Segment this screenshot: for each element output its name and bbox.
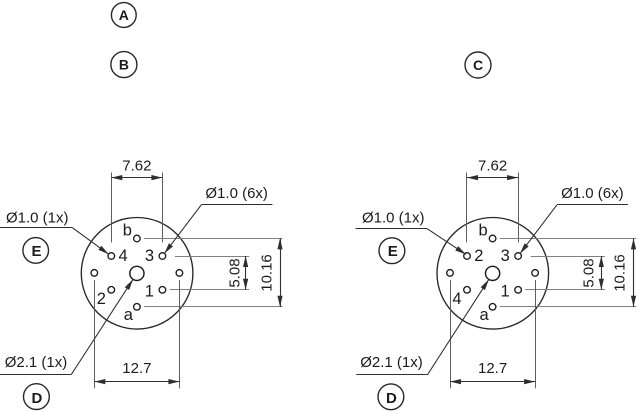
svg-text:Ø2.1 (1x): Ø2.1 (1x) <box>5 354 68 371</box>
svg-text:A: A <box>119 7 129 23</box>
svg-text:1: 1 <box>501 283 510 301</box>
svg-text:10.16: 10.16 <box>258 254 275 292</box>
svg-text:a: a <box>124 306 134 324</box>
svg-text:Ø1.0 (1x): Ø1.0 (1x) <box>362 209 425 226</box>
svg-text:2: 2 <box>474 247 483 265</box>
svg-text:1: 1 <box>145 283 154 301</box>
svg-text:2: 2 <box>97 290 106 308</box>
svg-text:12.7: 12.7 <box>122 360 151 377</box>
svg-text:10.16: 10.16 <box>611 254 628 292</box>
svg-text:3: 3 <box>145 247 154 265</box>
svg-text:Ø2.1 (1x): Ø2.1 (1x) <box>360 354 423 371</box>
svg-text:7.62: 7.62 <box>122 158 151 175</box>
svg-text:7.62: 7.62 <box>478 158 507 175</box>
svg-text:3: 3 <box>501 247 510 265</box>
svg-text:Ø1.0 (6x): Ø1.0 (6x) <box>561 185 624 202</box>
svg-text:4: 4 <box>119 247 128 265</box>
svg-text:a: a <box>480 306 490 324</box>
svg-text:b: b <box>479 222 488 240</box>
svg-text:5.08: 5.08 <box>581 258 598 287</box>
svg-text:5.08: 5.08 <box>226 258 243 287</box>
svg-text:D: D <box>386 390 397 407</box>
svg-text:b: b <box>123 222 132 240</box>
svg-text:Ø1.0 (1x): Ø1.0 (1x) <box>6 209 69 226</box>
svg-text:C: C <box>473 57 483 73</box>
svg-text:4: 4 <box>452 290 461 308</box>
svg-text:B: B <box>119 57 129 73</box>
svg-text:12.7: 12.7 <box>478 360 507 377</box>
svg-text:Ø1.0 (6x): Ø1.0 (6x) <box>205 185 268 202</box>
svg-text:E: E <box>31 243 41 260</box>
svg-text:E: E <box>388 243 398 260</box>
svg-text:D: D <box>31 390 42 407</box>
